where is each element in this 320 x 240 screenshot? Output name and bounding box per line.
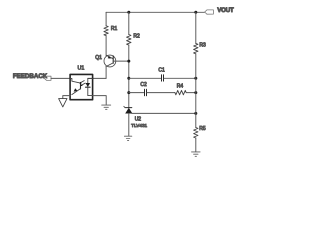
node comp bottom	[127, 91, 130, 94]
wire C2 to R4	[147, 92, 175, 94]
ground (bars) under U2	[124, 136, 131, 140]
wire R3 top stub	[195, 12, 197, 43]
wire U1 LED cathode to ground	[93, 96, 107, 105]
wire R1 to Q1 emitter	[105, 36, 107, 56]
wire R5 to ground	[195, 138, 197, 152]
wire Q1 collector down	[105, 66, 107, 78]
wire Q1 collector to U1 LED anode	[88, 77, 106, 79]
ground (triangle) primary	[59, 99, 67, 107]
ground (bars) bottom right	[192, 152, 201, 156]
optocoupler U1	[70, 66, 93, 100]
wire R4 to node C	[186, 92, 196, 94]
wire U2 ref to node C	[132, 112, 196, 114]
LED of U1	[88, 78, 93, 83]
resistor R2	[127, 35, 131, 46]
capacitor C1	[162, 75, 164, 81]
node top VOUT tap	[194, 11, 197, 14]
svg-text:TLV431: TLV431	[131, 123, 147, 128]
node R4 right	[194, 91, 197, 94]
wire R3 bottom to divider	[195, 54, 197, 128]
phototransistor of U1	[70, 78, 80, 83]
light arrows of U1	[80, 81, 84, 83]
wire top rail	[106, 11, 205, 13]
port VOUT	[205, 7, 234, 14]
wire C1 to node C	[164, 77, 196, 79]
svg-text:Q1: Q1	[95, 55, 102, 61]
svg-text:R5: R5	[199, 126, 206, 132]
wire R2 bottom to U2 cathode	[128, 45, 130, 108]
resistor R5	[194, 128, 198, 139]
wire to C1	[129, 77, 161, 79]
node Q1 base	[127, 60, 130, 63]
svg-text:R4: R4	[177, 83, 184, 89]
node comp top	[127, 77, 130, 80]
transistor Q1 (PNP)	[95, 55, 116, 67]
node ref	[194, 112, 197, 115]
node C1 right	[194, 77, 197, 80]
ground (bars) near U1	[102, 105, 111, 109]
svg-text:C1: C1	[158, 67, 165, 73]
svg-text:R1: R1	[111, 26, 118, 32]
wire R1 top stub	[105, 12, 107, 25]
wire Q1 base to node B	[113, 60, 129, 62]
wire to C2	[129, 92, 144, 94]
node top R2 tap	[127, 11, 130, 14]
wire FEEDBACK to U1	[51, 77, 70, 79]
wire U2 anode down	[128, 113, 130, 136]
capacitor C2	[145, 89, 147, 95]
resistor R1	[104, 26, 108, 36]
svg-text:U2: U2	[135, 117, 142, 123]
svg-text:R2: R2	[133, 34, 140, 40]
svg-text:FEEDBACK: FEEDBACK	[13, 73, 48, 80]
shunt regulator U2	[124, 106, 148, 128]
resistor R4	[175, 90, 186, 94]
svg-text:U1: U1	[78, 66, 85, 72]
port FEEDBACK	[13, 73, 51, 80]
svg-text:R3: R3	[199, 43, 206, 49]
resistor R3	[194, 43, 198, 53]
svg-text:VOUT: VOUT	[217, 7, 234, 14]
wire R2 top stub	[128, 12, 130, 34]
wire U1 emitter to ground	[63, 96, 70, 99]
svg-text:C2: C2	[140, 82, 147, 88]
